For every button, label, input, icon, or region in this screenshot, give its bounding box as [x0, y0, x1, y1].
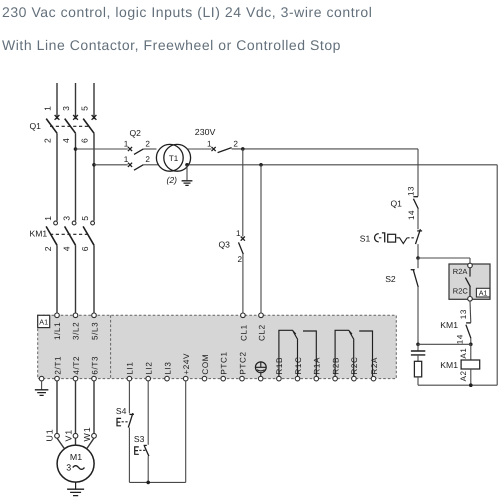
svg-text:Q3: Q3 — [219, 240, 231, 250]
svg-text:S4: S4 — [116, 406, 127, 416]
svg-text:R1A: R1A — [313, 357, 322, 375]
svg-text:A1: A1 — [479, 288, 488, 297]
svg-text:PTC1: PTC1 — [220, 351, 229, 374]
svg-text:5/L3: 5/L3 — [90, 322, 99, 340]
svg-text:R1C: R1C — [294, 357, 303, 375]
svg-text:5: 5 — [80, 215, 90, 220]
svg-text:4: 4 — [61, 138, 71, 143]
svg-text:R2B: R2B — [331, 357, 340, 375]
svg-text:T1: T1 — [169, 154, 179, 163]
svg-text:2: 2 — [145, 155, 150, 164]
svg-text:13: 13 — [406, 186, 415, 196]
svg-text:A2: A2 — [459, 370, 468, 381]
svg-text:W1: W1 — [82, 427, 92, 442]
svg-text:230V: 230V — [195, 127, 216, 137]
svg-text:LI1: LI1 — [126, 361, 135, 374]
svg-text:3: 3 — [62, 215, 72, 220]
svg-text:3: 3 — [66, 462, 71, 472]
svg-text:1: 1 — [124, 155, 129, 164]
svg-text:6: 6 — [80, 138, 90, 143]
svg-text:R2A: R2A — [370, 357, 379, 375]
svg-text:2: 2 — [43, 138, 53, 143]
svg-text:Q1: Q1 — [391, 198, 403, 208]
svg-text:With Line Contactor, Freewheel: With Line Contactor, Freewheel or Contro… — [2, 37, 341, 53]
svg-text:CL2: CL2 — [258, 324, 267, 341]
svg-text:M1: M1 — [70, 452, 82, 462]
svg-text:R2C: R2C — [350, 357, 359, 375]
svg-text:6: 6 — [80, 246, 90, 251]
svg-text:PTC2: PTC2 — [238, 351, 247, 374]
svg-text:KM1: KM1 — [440, 360, 458, 370]
svg-text:U1: U1 — [44, 428, 54, 441]
svg-text:2: 2 — [43, 246, 53, 251]
svg-text:2: 2 — [145, 139, 150, 148]
svg-text:COM: COM — [201, 354, 210, 375]
svg-text:LI2: LI2 — [145, 361, 154, 374]
svg-text:R2A: R2A — [453, 267, 468, 276]
svg-text:13: 13 — [459, 309, 468, 319]
svg-text:Q1: Q1 — [30, 121, 42, 131]
svg-text:2: 2 — [233, 139, 238, 148]
svg-text:4: 4 — [62, 246, 72, 251]
svg-text:4/T2: 4/T2 — [72, 356, 81, 375]
svg-text:V1: V1 — [64, 429, 74, 442]
svg-text:(2): (2) — [167, 175, 178, 185]
svg-text:2: 2 — [238, 255, 243, 264]
svg-text:KM1: KM1 — [440, 320, 458, 330]
svg-text:1: 1 — [43, 215, 53, 220]
svg-text:Q2: Q2 — [130, 128, 142, 138]
svg-text:+24V: +24V — [182, 353, 191, 375]
svg-text:1: 1 — [124, 139, 129, 148]
svg-text:230 Vac control, logic Inputs: 230 Vac control, logic Inputs (LI) 24 Vd… — [2, 4, 372, 20]
svg-text:R1B: R1B — [275, 357, 284, 375]
svg-text:S3: S3 — [134, 434, 145, 444]
svg-text:6/T3: 6/T3 — [90, 356, 99, 375]
svg-text:1: 1 — [207, 139, 212, 148]
svg-text:CL1: CL1 — [240, 324, 249, 341]
svg-text:KM1: KM1 — [30, 229, 48, 239]
svg-text:A1: A1 — [39, 318, 48, 327]
svg-text:LI3: LI3 — [163, 361, 172, 374]
svg-text:1: 1 — [43, 106, 53, 111]
svg-text:1: 1 — [236, 229, 241, 238]
svg-text:3: 3 — [61, 106, 71, 111]
svg-text:2/T1: 2/T1 — [53, 356, 62, 375]
svg-text:S1: S1 — [360, 233, 371, 243]
svg-text:S2: S2 — [385, 274, 396, 284]
svg-text:5: 5 — [80, 106, 90, 111]
svg-text:1/L1: 1/L1 — [53, 322, 62, 340]
svg-text:A1: A1 — [459, 348, 468, 359]
svg-text:14: 14 — [456, 334, 465, 344]
svg-text:3/L2: 3/L2 — [72, 322, 81, 340]
svg-text:14: 14 — [407, 210, 416, 220]
svg-text:R2C: R2C — [453, 287, 469, 296]
